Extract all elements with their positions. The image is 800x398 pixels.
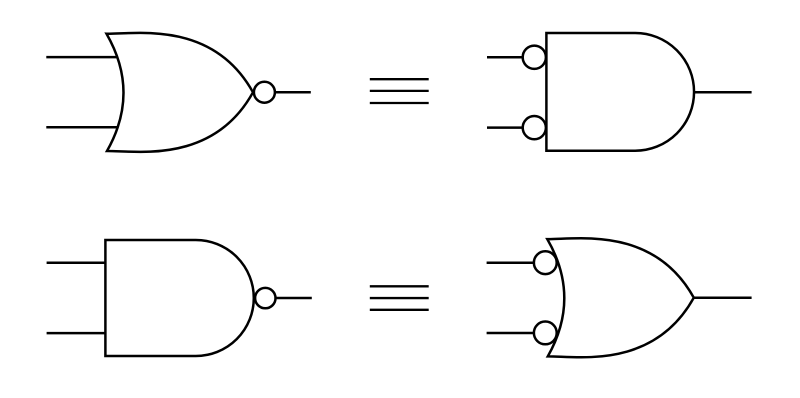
bubble U4 input A inversion: [534, 251, 557, 274]
equivalence symbol top: [370, 79, 429, 103]
wire NOR input A: [46, 56, 124, 59]
wire AND input B: [487, 126, 534, 129]
wire NOR output: [253, 91, 311, 94]
wire NAND input A: [47, 261, 106, 264]
wire OR input A: [487, 261, 540, 264]
gate U1 NOR (OR body): [107, 33, 254, 152]
bubble U4 input B inversion: [534, 322, 557, 345]
wire AND input A: [487, 56, 534, 59]
wire OR output: [695, 297, 752, 300]
bubble U1 output inversion: [254, 82, 275, 103]
bubble U2 input B inversion: [523, 116, 546, 139]
bubble U3 output inversion: [255, 288, 275, 308]
wire AND output: [694, 91, 752, 94]
wire OR input B: [487, 332, 540, 335]
bubble U2 input A inversion: [523, 46, 546, 69]
gate U2 AND body: [546, 33, 694, 151]
equivalence symbol bottom: [370, 286, 429, 310]
wire NAND input B: [47, 332, 106, 335]
gate U3 NAND (AND body): [105, 240, 253, 356]
wire NAND output: [254, 297, 312, 300]
wire NOR input B: [46, 126, 124, 129]
gate U4 OR body: [547, 238, 694, 357]
